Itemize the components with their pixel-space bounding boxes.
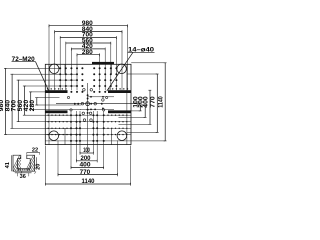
hole rows lower-left <box>48 115 49 116</box>
top dimension 280 <box>77 54 100 56</box>
slot bar lower-left <box>45 110 67 113</box>
vertical centerline <box>87 83 89 153</box>
right dimension 770 <box>156 74 158 132</box>
right dimension 1140 <box>164 63 166 141</box>
right dimension 400 <box>149 90 151 124</box>
svg-text:100: 100 <box>83 148 90 154</box>
left dimension 980 <box>5 68 7 134</box>
T-slot bottom holes <box>18 169 19 170</box>
boss divider top right <box>111 64 113 74</box>
plate inner edge line right <box>126 64 128 144</box>
center auxiliary row lines <box>88 96 114 98</box>
top dimension 420 <box>71 48 105 50</box>
left dimension 560 <box>24 86 26 115</box>
leader 14-o40 <box>107 52 133 91</box>
T-slot hatch left <box>13 155 20 168</box>
boss divider top left <box>64 64 66 74</box>
left dimension 700 <box>17 80 19 122</box>
left dimension 280 <box>36 98 38 105</box>
svg-text:1140: 1140 <box>82 179 96 185</box>
bottom dimension 100 <box>80 152 93 154</box>
top dimension 980 <box>49 25 128 27</box>
center axis holes <box>74 103 76 105</box>
plate outline <box>45 64 131 144</box>
top dimension 700 <box>60 36 116 38</box>
T-slot hatch right <box>27 155 34 168</box>
horizontal centerline <box>56 103 140 105</box>
tie-bar hole top-left <box>49 64 59 74</box>
boss divider bottom left <box>64 128 66 144</box>
leader 72-M20 <box>36 62 49 91</box>
svg-text:280: 280 <box>29 99 36 111</box>
top dimension 560 <box>66 42 111 44</box>
left dimension 840 <box>11 74 13 128</box>
hole rows lower-right <box>107 115 108 116</box>
tie-bar hole bottom-right <box>117 131 127 141</box>
bottom dim extensions through plate <box>70 111 72 146</box>
svg-text:36: 36 <box>20 174 26 180</box>
center locating hole <box>86 102 90 106</box>
bottom dimension 400 <box>71 167 104 169</box>
svg-text:770: 770 <box>150 96 157 108</box>
svg-text:22: 22 <box>32 148 38 154</box>
svg-text:770: 770 <box>80 170 91 176</box>
plate inner edge line left <box>48 64 50 144</box>
tie-bar hole top-right <box>117 64 127 74</box>
auxiliary holes near center <box>83 89 86 92</box>
right dimension 200 <box>144 105 146 118</box>
svg-text:72–M20: 72–M20 <box>12 57 36 63</box>
bottom dimension 1140 <box>45 183 130 185</box>
top dimension 840 <box>55 31 122 33</box>
boss divider bottom right <box>111 128 113 144</box>
M20 hole grid upper-right <box>93 67 95 69</box>
M20 hole grid upper-left <box>59 67 61 69</box>
svg-text:400: 400 <box>142 96 149 108</box>
svg-text:1140: 1140 <box>158 96 165 108</box>
bottom dimension 200 <box>77 160 98 162</box>
lower hole row lines <box>45 114 131 116</box>
slot bar upper-right <box>108 90 131 93</box>
right dimension 100 <box>139 105 141 111</box>
M20 hole grid lower-right <box>92 114 94 116</box>
svg-text:41: 41 <box>5 162 11 168</box>
T-slot detail outline <box>13 155 35 171</box>
slot bar lower-right <box>108 110 131 113</box>
M20 hole grid lower-left <box>70 114 72 116</box>
tie-bar hole bottom-left <box>49 131 59 141</box>
slot bar upper-left <box>45 90 67 93</box>
svg-text:20: 20 <box>35 164 41 170</box>
svg-text:200: 200 <box>81 156 92 162</box>
bottom dimension 770 <box>58 174 118 176</box>
hole row above slot bars <box>47 88 48 89</box>
svg-text:280: 280 <box>82 49 93 56</box>
svg-text:400: 400 <box>80 163 92 169</box>
left dimension 420 <box>30 92 32 109</box>
top edge hole strip <box>92 62 114 64</box>
